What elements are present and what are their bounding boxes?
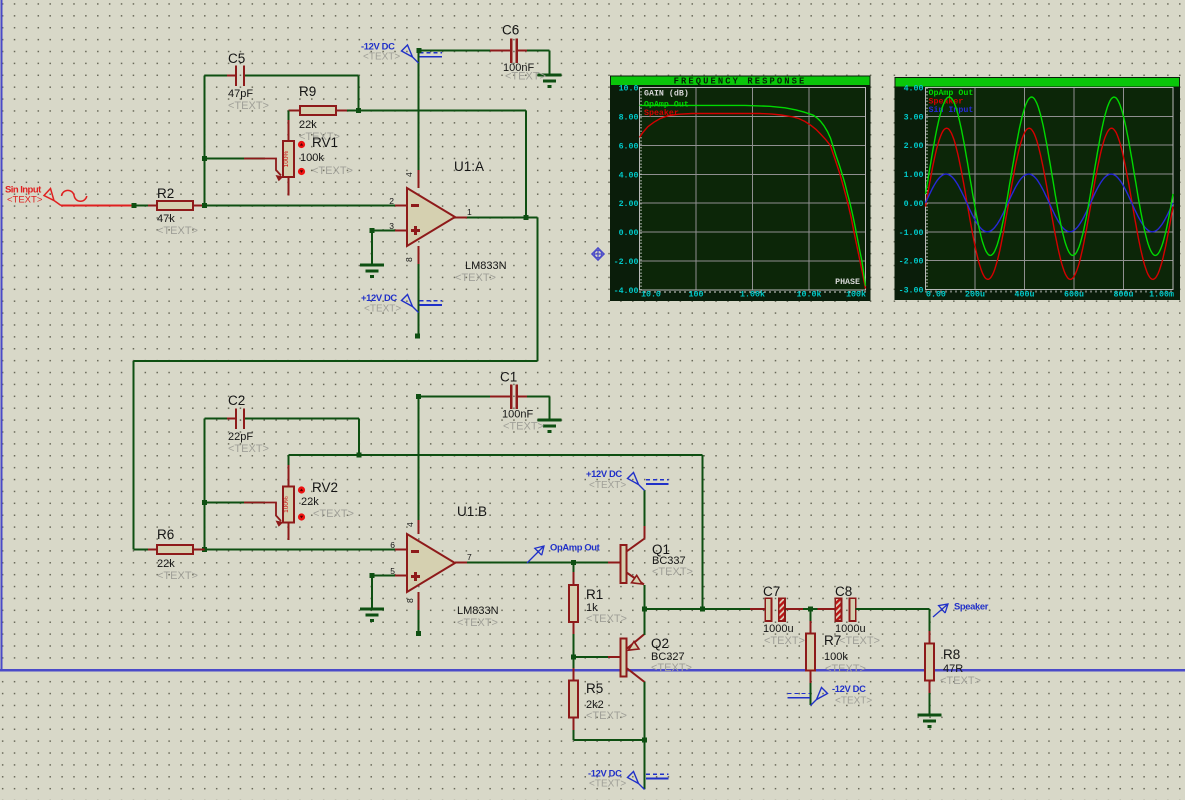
svg-text:<TEXT>: <TEXT> bbox=[586, 710, 627, 722]
svg-text:2.00: 2.00 bbox=[619, 200, 639, 209]
svg-text:U1:B: U1:B bbox=[457, 504, 487, 519]
graph: frequency response window bbox=[610, 76, 871, 302]
pin R2.1 bbox=[148, 205, 157, 207]
svg-text:<TEXT>: <TEXT> bbox=[586, 613, 627, 625]
graph title bar right bbox=[896, 78, 1180, 87]
svg-text:<TEXT>: <TEXT> bbox=[363, 52, 400, 63]
ground C6 bbox=[538, 74, 562, 77]
svg-text:Sin Input: Sin Input bbox=[929, 105, 974, 115]
power bars -12V bottom bbox=[646, 773, 669, 775]
svg-text:0.00: 0.00 bbox=[619, 229, 639, 238]
svg-text:47k: 47k bbox=[157, 213, 175, 225]
pin RV2 bottom stub bbox=[288, 523, 290, 541]
curve OpAmp Out (green sine) bbox=[926, 97, 1174, 255]
capacitor C5 bbox=[235, 65, 237, 86]
RV2 wiper bbox=[244, 503, 281, 522]
y axis ticks right bbox=[926, 88, 928, 290]
wire down to RV2 node bbox=[358, 419, 360, 456]
junction node U1:B pin5 ground bbox=[370, 573, 375, 578]
pin R5.1 bbox=[573, 668, 575, 681]
svg-text:100k: 100k bbox=[824, 651, 848, 663]
svg-text:-12V DC: -12V DC bbox=[832, 683, 866, 694]
wire to R7 bbox=[810, 609, 812, 634]
svg-text:0.00: 0.00 bbox=[904, 200, 924, 209]
ground U1:B pin5 bbox=[360, 608, 384, 611]
svg-text:6.00: 6.00 bbox=[619, 142, 639, 151]
power bars +12V Q1 bbox=[646, 479, 669, 481]
pin R5.2 bbox=[573, 718, 575, 731]
svg-text:10.0: 10.0 bbox=[641, 291, 661, 300]
pin C5.2 bbox=[245, 75, 253, 77]
junction +12V rail end bbox=[415, 334, 420, 339]
wire Q2 collector down bbox=[644, 682, 646, 740]
svg-text:4: 4 bbox=[404, 172, 414, 177]
svg-text:6: 6 bbox=[390, 540, 395, 550]
svg-text:<TEXT>: <TEXT> bbox=[157, 225, 198, 237]
wire to C1 bbox=[419, 396, 503, 398]
op-amp U1:B bbox=[407, 534, 455, 592]
potentiometer RV1 bbox=[283, 141, 294, 177]
power bars -12V top bbox=[420, 52, 443, 54]
svg-text:-1.00: -1.00 bbox=[899, 229, 924, 238]
pin R9.1 bbox=[289, 110, 300, 112]
svg-text:<TEXT>: <TEXT> bbox=[940, 675, 981, 687]
resistor R8 bbox=[925, 644, 934, 681]
wire to ground bbox=[371, 231, 373, 265]
pin C1.1 bbox=[490, 396, 511, 398]
pin U1:A.2 bbox=[395, 205, 407, 207]
svg-text:<TEXT>: <TEXT> bbox=[505, 71, 546, 83]
svg-text:8.00: 8.00 bbox=[619, 113, 639, 122]
wire output to C7 bbox=[645, 608, 766, 610]
svg-text:47pF: 47pF bbox=[228, 88, 253, 100]
svg-text:100k: 100k bbox=[300, 152, 324, 164]
pin R7.1 bbox=[810, 621, 812, 634]
svg-text:<TEXT>: <TEXT> bbox=[589, 480, 626, 491]
svg-text:R1: R1 bbox=[586, 587, 603, 602]
svg-text:Speaker: Speaker bbox=[954, 601, 989, 612]
wire R5 to Q2 collector bbox=[574, 739, 645, 741]
svg-text:Q2: Q2 bbox=[651, 636, 669, 651]
pin U1:A.4 bbox=[418, 170, 420, 188]
wire U1:B pin8 stub bbox=[418, 610, 420, 634]
power arrow -12V bottom bbox=[628, 772, 645, 790]
curve Speaker (red sine) bbox=[926, 128, 1174, 279]
svg-text:1.00k: 1.00k bbox=[740, 290, 765, 300]
junction node U1:A pin3 ground bbox=[370, 228, 375, 233]
wire C6 to ground bbox=[527, 50, 550, 52]
svg-text:<TEXT>: <TEXT> bbox=[651, 662, 692, 674]
svg-text:+12V DC: +12V DC bbox=[586, 468, 622, 479]
sheet border left bbox=[0, 0, 2, 672]
junction node C1 / U1:B pin4 bbox=[416, 394, 421, 399]
junction node -12V / C6 bbox=[417, 48, 422, 53]
wire R8 to ground bbox=[929, 681, 931, 715]
svg-text:4: 4 bbox=[405, 522, 415, 527]
wire C5 to corner bbox=[245, 75, 359, 77]
svg-text:4.00: 4.00 bbox=[619, 171, 639, 180]
power bars +12V U1:A bbox=[420, 300, 443, 302]
wire RV2 top bbox=[288, 455, 290, 467]
ground C1 bbox=[538, 419, 562, 422]
pin U1:B.6 bbox=[395, 549, 407, 551]
wire down to ground bbox=[549, 397, 551, 420]
svg-text:8: 8 bbox=[404, 257, 414, 262]
svg-text:100: 100 bbox=[689, 291, 704, 300]
svg-text:<TEXT>: <TEXT> bbox=[7, 195, 43, 206]
wire to Q2 base bbox=[574, 656, 609, 658]
junction node C7 / C8 / R7 bbox=[808, 607, 813, 612]
svg-text:2: 2 bbox=[389, 196, 394, 206]
origin marker bbox=[592, 248, 605, 261]
svg-text:<TEXT>: <TEXT> bbox=[652, 566, 693, 578]
wire to Q2 emitter bbox=[644, 609, 646, 635]
svg-text:600u: 600u bbox=[1064, 291, 1084, 300]
svg-text:1000u: 1000u bbox=[763, 623, 794, 635]
pin C2.2 bbox=[245, 418, 253, 420]
junction node C5 / RV1 wiper bbox=[202, 156, 207, 161]
svg-text:C6: C6 bbox=[502, 23, 519, 38]
junction node U1:A output bbox=[524, 215, 529, 220]
svg-text:10.0: 10.0 bbox=[619, 85, 639, 94]
capacitor C2 bbox=[235, 408, 237, 429]
svg-text:<TEXT>: <TEXT> bbox=[839, 635, 880, 647]
pin R6.1 bbox=[148, 549, 157, 551]
power arrow -12V R7 bbox=[811, 688, 828, 706]
sheet border bottom bbox=[0, 669, 1185, 671]
svg-text:C5: C5 bbox=[228, 51, 245, 66]
graph title bar bbox=[611, 77, 870, 86]
junction node Sin Input / R2 bbox=[132, 203, 137, 208]
pin C7.2 bbox=[786, 608, 804, 610]
svg-text:+12V DC: +12V DC bbox=[361, 292, 397, 303]
svg-text:Speaker: Speaker bbox=[644, 108, 679, 118]
svg-text:C2: C2 bbox=[228, 393, 245, 408]
wire to C5 bbox=[205, 75, 236, 77]
svg-text:LM833N: LM833N bbox=[457, 605, 499, 617]
resistor R7 bbox=[806, 634, 815, 671]
svg-text:<TEXT>: <TEXT> bbox=[589, 779, 626, 790]
pin C2.1 bbox=[227, 418, 235, 420]
pin R7.2 bbox=[810, 671, 812, 684]
transistor Q1 BC337 bbox=[621, 545, 627, 583]
pin R8.2 bbox=[929, 681, 931, 694]
wire to ground bbox=[371, 576, 373, 609]
pin R9.2 bbox=[337, 110, 348, 112]
wire output down bbox=[537, 218, 539, 362]
junction node R1 / R5 / Q2 base bbox=[571, 655, 576, 660]
pin Q1 collector bbox=[644, 526, 646, 539]
potentiometer RV2 bbox=[283, 487, 294, 523]
pin C7.1 bbox=[750, 608, 766, 610]
svg-text:OpAmp Out: OpAmp Out bbox=[550, 542, 600, 553]
junction node RV2 wiper bbox=[202, 500, 207, 505]
junction node C2 / RV2 top bbox=[357, 453, 362, 458]
junction node OpAmp Out / R1 bbox=[571, 560, 576, 565]
pin U1:A.3 bbox=[395, 230, 407, 232]
gridlines bbox=[640, 115, 866, 117]
wire C1 node to U1:B pin4 bbox=[418, 397, 420, 523]
wire U1:A pin3 bbox=[372, 230, 395, 232]
pin C6.1 bbox=[490, 50, 511, 52]
wire to RV2 wiper bbox=[205, 502, 266, 504]
wire R1 to R5 bbox=[573, 622, 575, 681]
svg-text:R6: R6 bbox=[157, 527, 174, 542]
wire C7 to C8 bbox=[785, 608, 836, 610]
svg-text:<TEXT>: <TEXT> bbox=[312, 165, 353, 177]
wire down to R9 node bbox=[358, 76, 360, 111]
junction node R5 / Q2 collector bbox=[642, 738, 647, 743]
wire down to R8 bbox=[929, 609, 931, 644]
wire -12V to U1:A pin4 bbox=[418, 51, 420, 173]
wire U1:A output bbox=[467, 217, 538, 219]
curve Speaker (red) bbox=[640, 114, 866, 289]
svg-text:-2.00: -2.00 bbox=[899, 258, 924, 267]
svg-text:GAIN (dB): GAIN (dB) bbox=[644, 89, 689, 99]
net label arrow OpAmp Out bbox=[527, 546, 544, 563]
svg-text:47R: 47R bbox=[943, 663, 963, 675]
ground U1:A pin3 bbox=[360, 264, 384, 267]
svg-text:<TEXT>: <TEXT> bbox=[228, 100, 269, 112]
svg-text:-12V DC: -12V DC bbox=[588, 768, 622, 779]
graph: analogue transient window bbox=[895, 77, 1181, 300]
net label arrow Speaker bbox=[933, 604, 948, 617]
wire to RV1 wiper bbox=[205, 158, 266, 160]
pin C5.1 bbox=[227, 75, 235, 77]
pin U1:B.5 bbox=[395, 575, 407, 577]
pin R1.2 bbox=[573, 622, 575, 635]
wire interstage vertical bbox=[133, 361, 135, 550]
junction node output / feedback bbox=[700, 607, 705, 612]
svg-text:<TEXT>: <TEXT> bbox=[825, 663, 866, 675]
wire to -12V bottom bbox=[644, 740, 646, 789]
pin RV1 top bbox=[288, 120, 290, 141]
pin RV2 top bbox=[288, 465, 290, 487]
plot area bbox=[640, 88, 866, 291]
svg-text:C7: C7 bbox=[763, 584, 780, 599]
svg-text:R7: R7 bbox=[824, 633, 841, 648]
power arrow +12V U1:A bbox=[402, 295, 419, 313]
svg-text:<TEXT>: <TEXT> bbox=[364, 304, 401, 315]
source Sin Input sine symbol bbox=[62, 190, 87, 201]
capacitor C7 (electrolytic) bbox=[765, 598, 771, 621]
wire down to ground bbox=[549, 51, 551, 75]
wire R9 to RV1 bbox=[288, 111, 290, 123]
wire R7 to -12V bbox=[810, 671, 812, 706]
svg-text:0.00: 0.00 bbox=[926, 291, 946, 300]
resistor R5 bbox=[569, 681, 578, 718]
wire vertical C5 branch bbox=[204, 76, 206, 206]
svg-text:22pF: 22pF bbox=[228, 431, 253, 443]
transistor Q2 BC327 bbox=[621, 639, 627, 677]
svg-text:<TEXT>: <TEXT> bbox=[457, 617, 498, 629]
svg-text:U1:A: U1:A bbox=[454, 159, 484, 174]
svg-text:R2: R2 bbox=[157, 186, 174, 201]
op-amp U1:A bbox=[407, 188, 455, 246]
power arrow +12V Q1 bbox=[628, 473, 645, 491]
capacitor C8 (electrolytic) bbox=[835, 598, 841, 621]
pin Q2 base bbox=[608, 656, 621, 658]
wire U1:B pin5 bbox=[372, 575, 395, 577]
wire to R1 bbox=[573, 563, 575, 586]
svg-text:100%: 100% bbox=[283, 150, 290, 167]
svg-text:FREQUENCY RESPONSE: FREQUENCY RESPONSE bbox=[674, 77, 807, 87]
pin C6.2 bbox=[517, 50, 536, 52]
wire to R6 bbox=[134, 549, 158, 551]
svg-text:7: 7 bbox=[467, 552, 472, 562]
x axis ticks right bbox=[926, 291, 1174, 293]
svg-text:<TEXT>: <TEXT> bbox=[313, 508, 354, 520]
wire feedback vertical stage2 bbox=[702, 455, 704, 609]
pin Q1 base bbox=[608, 562, 621, 564]
curve OpAmp Out (green) bbox=[640, 105, 866, 285]
svg-text:22k: 22k bbox=[301, 496, 319, 508]
svg-text:C8: C8 bbox=[835, 584, 852, 599]
svg-text:RV1: RV1 bbox=[312, 135, 338, 150]
source Sin Input terminal bbox=[44, 189, 61, 206]
wire -12V to C6 bbox=[419, 50, 502, 52]
svg-text:4.00: 4.00 bbox=[904, 85, 924, 94]
svg-text:-2.00: -2.00 bbox=[614, 258, 639, 267]
svg-text:1: 1 bbox=[467, 207, 472, 217]
junction node emitters output bbox=[642, 607, 647, 612]
svg-text:100nF: 100nF bbox=[502, 409, 533, 421]
wire feedback vertical bbox=[525, 111, 527, 218]
svg-text:<TEXT>: <TEXT> bbox=[764, 635, 805, 647]
resistor R6 bbox=[157, 545, 193, 554]
svg-text:800u: 800u bbox=[1114, 291, 1134, 300]
capacitor C6 bbox=[510, 38, 513, 63]
wire R9 node to feedback corner bbox=[347, 110, 526, 112]
svg-text:100k: 100k bbox=[846, 290, 866, 300]
capacitor C1 bbox=[510, 384, 513, 409]
svg-text:<TEXT>: <TEXT> bbox=[228, 443, 269, 455]
wire bbox=[136, 205, 157, 207]
junction node R9 / C5 feedback bbox=[356, 108, 361, 113]
wire R2 to U1:A pin2 bbox=[205, 205, 396, 207]
power bars -12V R7 bbox=[788, 693, 811, 695]
svg-text:<TEXT>: <TEXT> bbox=[157, 570, 198, 582]
svg-text:LM833N: LM833N bbox=[465, 260, 507, 272]
plot area right bbox=[926, 88, 1174, 290]
svg-text:C1: C1 bbox=[500, 370, 517, 385]
pin U1:B.7 bbox=[455, 562, 467, 564]
wire Q1 emitter down bbox=[644, 585, 646, 609]
pin R8.1 bbox=[929, 631, 931, 644]
svg-text:22k: 22k bbox=[157, 558, 175, 570]
resistor R9 bbox=[300, 106, 336, 115]
wire to C2 bbox=[205, 418, 236, 420]
svg-text:1.00: 1.00 bbox=[904, 171, 924, 180]
svg-text:22k: 22k bbox=[299, 119, 317, 131]
svg-text:3.00: 3.00 bbox=[904, 113, 924, 122]
svg-text:1.00m: 1.00m bbox=[1149, 291, 1174, 300]
pin RV1 bottom stub bbox=[288, 177, 290, 196]
pin R6.2 bbox=[193, 549, 205, 551]
y axis ticks bbox=[640, 88, 642, 291]
svg-text:<TEXT>: <TEXT> bbox=[455, 272, 496, 284]
svg-text:R8: R8 bbox=[943, 647, 960, 662]
svg-text:8: 8 bbox=[405, 598, 415, 603]
svg-text:Speaker: Speaker bbox=[929, 97, 964, 107]
resistor R2 bbox=[157, 201, 193, 210]
wire RV2 top to output corner bbox=[289, 454, 703, 456]
junction node R2 / U1:A pin2 bbox=[202, 203, 207, 208]
wire R6 to U1:B pin6 bbox=[205, 549, 396, 551]
wire C1 to ground bbox=[527, 396, 550, 398]
svg-text:RV2: RV2 bbox=[312, 480, 338, 495]
wire Sin Input to R2 bbox=[61, 205, 136, 207]
pin U1:A.8 bbox=[418, 246, 420, 264]
ground R8 bbox=[918, 714, 942, 717]
wire C8 to R8 bbox=[856, 608, 930, 610]
svg-text:<TEXT>: <TEXT> bbox=[835, 696, 872, 707]
svg-text:<TEXT>: <TEXT> bbox=[503, 421, 544, 433]
wire interstage horizontal bbox=[134, 360, 538, 362]
pin R2.2 bbox=[193, 205, 205, 207]
curve Sin Input (blue sine) bbox=[926, 174, 1174, 232]
pin R1.1 bbox=[573, 572, 575, 585]
svg-text:R9: R9 bbox=[299, 84, 316, 99]
gridlines right bbox=[926, 115, 1174, 117]
pin C8.1 bbox=[818, 608, 836, 610]
pin U1:B.8 bbox=[418, 592, 420, 610]
wire U1:A pin8 to +12V bbox=[418, 264, 420, 336]
wire R5 down bbox=[573, 718, 575, 741]
svg-text:-12V DC: -12V DC bbox=[361, 41, 395, 52]
x axis ticks bbox=[640, 291, 866, 293]
svg-text:2.00: 2.00 bbox=[904, 142, 924, 151]
wire C2 right bbox=[245, 418, 359, 420]
svg-text:10.0k: 10.0k bbox=[797, 290, 822, 300]
wire U1:B out to Q1 base bbox=[467, 562, 608, 564]
pin U1:B.4 bbox=[418, 520, 420, 534]
svg-text:200u: 200u bbox=[965, 291, 985, 300]
svg-text:-4.00: -4.00 bbox=[614, 287, 639, 296]
pin C8.2 bbox=[856, 608, 872, 610]
power arrow -12V top bbox=[402, 45, 419, 63]
resistor R1 bbox=[569, 585, 578, 622]
junction U1:B pin8 stub end bbox=[416, 631, 421, 636]
svg-text:400u: 400u bbox=[1015, 291, 1035, 300]
junction node R6 / U1:B pin6 bbox=[202, 547, 207, 552]
wire Q1 collector to +12V bbox=[644, 490, 646, 526]
pin U1:A.1 bbox=[455, 217, 467, 219]
svg-text:100%: 100% bbox=[283, 496, 290, 513]
pin C1.2 bbox=[517, 396, 536, 398]
wire vertical C2 branch bbox=[204, 419, 206, 550]
svg-text:-3.00: -3.00 bbox=[899, 287, 924, 296]
svg-text:PHASE: PHASE bbox=[835, 278, 860, 287]
svg-text:R5: R5 bbox=[586, 681, 603, 696]
RV1 wiper bbox=[244, 159, 281, 176]
